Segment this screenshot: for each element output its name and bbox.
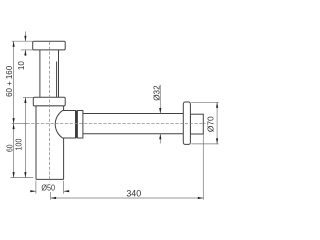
dimension 100 [14,98,26,178]
svg-text:Ø50: Ø50 [41,183,55,192]
dimension 60+160 [4,41,15,123]
dimension D32 [153,85,162,144]
dimension D50 [30,181,70,194]
elbow collar [77,111,83,139]
svg-text:100: 100 [14,138,23,150]
svg-text:60 + 160: 60 + 160 [4,66,14,97]
extension line cup bottom [11,177,34,179]
dimension 340 [51,134,204,200]
vertical centerline [48,42,50,180]
horizontal centerline [27,123,206,125]
top flange [33,41,65,50]
wall flange [183,102,190,144]
elbow thick ring [75,111,77,139]
dimension D70 [191,102,218,144]
svg-text:Ø32: Ø32 [153,85,162,101]
dimension 10 [16,32,26,71]
svg-text:340: 340 [126,189,141,200]
dimension 60 [6,124,15,178]
svg-text:10: 10 [16,61,26,70]
extension line nut top [23,96,33,98]
extension line flange top [12,40,33,42]
svg-text:60: 60 [6,144,15,152]
wall stub pipe [190,114,203,134]
cup nut [33,97,65,106]
dome elbow nut [55,111,75,139]
extension line flange bottom [21,49,33,51]
extension line centerline left [12,123,27,125]
vertical tail pipe [40,50,59,97]
cup body [36,106,64,179]
horizontal pipe [83,114,183,134]
svg-text:Ø70: Ø70 [206,116,215,132]
